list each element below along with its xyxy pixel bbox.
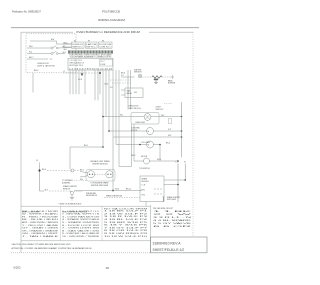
N supply lead bbox=[184, 164, 186, 181]
ground bbox=[70, 195, 74, 200]
junction cool fan right bbox=[159, 144, 161, 146]
wire W-6 stub bbox=[63, 46, 72, 48]
plug ticks bbox=[71, 169, 72, 172]
igniter ground stub bbox=[154, 79, 158, 81]
svg-text:L1 N: L1 N bbox=[142, 184, 146, 186]
wire drop to lower module bbox=[118, 70, 120, 167]
wire to cooling fan bbox=[116, 144, 147, 146]
svg-text:BK-12: BK-12 bbox=[126, 189, 131, 191]
dashed stub row a bbox=[110, 79, 131, 81]
L1 riser wire bbox=[39, 165, 41, 191]
wire gauge table rows bbox=[104, 211, 150, 238]
svg-text:5 - SPARK IGNITER: 5 - SPARK IGNITER bbox=[62, 221, 100, 224]
svg-text:6 6 OR: 6 6 OR bbox=[153, 226, 194, 228]
diagram title on top edge bbox=[73, 30, 149, 34]
TO-BE dashes bbox=[74, 191, 83, 193]
svg-text:7 18 GY 1/4-F P7: 7 18 GY 1/4-F P7 bbox=[104, 227, 149, 229]
disconnect plug bbox=[71, 169, 74, 172]
lamp X strokes bbox=[145, 115, 150, 120]
wire into module left 2 bbox=[121, 94, 125, 96]
oven burner box (dashed) bbox=[26, 34, 76, 73]
svg-text:M: M bbox=[148, 145, 150, 147]
svg-text:WIRING DIAGRAM: WIRING DIAGRAM bbox=[98, 18, 125, 22]
wire drop into lamp enclosure bbox=[127, 70, 129, 110]
polarity arrow bbox=[81, 74, 83, 77]
sensor X strokes bbox=[139, 75, 141, 77]
legend divider col2/table bbox=[101, 206, 103, 241]
junction surface feed bbox=[102, 146, 104, 148]
svg-text:GY - GRAY / GRIS: GY - GRAY / GRIS bbox=[22, 227, 59, 230]
wire into M3 bbox=[134, 160, 144, 162]
svg-text:OVEN LIGHT: OVEN LIGHT bbox=[135, 122, 145, 124]
svg-text:1 - LINE 1 SUPPLY / L1: 1 - LINE 1 SUPPLY / L1 bbox=[62, 211, 100, 213]
svg-text:V-9: V-9 bbox=[121, 75, 124, 77]
svg-text:OR-4: OR-4 bbox=[104, 84, 108, 86]
wire pin8 drop bbox=[97, 70, 99, 100]
svg-text:4 18 BL 1/4-F P4: 4 18 BL 1/4-F P4 bbox=[104, 219, 149, 221]
svg-text:COOL FAN: COOL FAN bbox=[141, 141, 150, 144]
svg-text:W-2: W-2 bbox=[63, 52, 66, 54]
wire surface feed drop bbox=[69, 147, 71, 169]
spark module box bbox=[140, 176, 164, 202]
svg-text:VALVE: VALVE bbox=[127, 92, 133, 95]
oven lamp bbox=[144, 114, 151, 121]
wire pin9 drop to lamp feed bbox=[102, 70, 104, 147]
wire pin12 drop bbox=[112, 70, 114, 191]
svg-text:SENSOR: SENSOR bbox=[134, 72, 142, 74]
svg-text:3 3 R L1 - N: 3 3 R L1 - N bbox=[153, 217, 193, 219]
connector table rows bbox=[153, 211, 195, 228]
wire door switch to EOC bbox=[58, 47, 71, 50]
relay module box bbox=[125, 88, 143, 98]
svg-text:Y - YELLOW / JAUNE: Y - YELLOW / JAUNE bbox=[22, 224, 59, 227]
wire pin4 drop bbox=[78, 70, 80, 94]
svg-text:PGLF389CCB: PGLF389CCB bbox=[102, 10, 120, 14]
wire to fan motor bbox=[109, 130, 147, 132]
svg-text:L1: L1 bbox=[63, 71, 65, 73]
cooling fan motor M2 bbox=[147, 141, 154, 148]
svg-text:BK-5: BK-5 bbox=[80, 169, 84, 171]
L1 supply lead bbox=[177, 164, 179, 203]
svg-text:R - RED / ROUGE: R - RED / ROUGE bbox=[22, 216, 59, 218]
svg-text:2 2 W: 2 2 W bbox=[153, 214, 191, 216]
legend column 1 rows bbox=[22, 210, 59, 238]
dashed wire to igniter coil bbox=[142, 76, 152, 78]
svg-text:P6: P6 bbox=[102, 40, 104, 42]
terminal strip P1 bbox=[68, 50, 113, 53]
svg-text:HV2: HV2 bbox=[142, 194, 145, 196]
junction lamp feed bbox=[102, 116, 104, 118]
igniter enclosure bbox=[86, 170, 115, 182]
L1 riser tick bbox=[39, 163, 41, 166]
wire module to N lead bbox=[164, 179, 185, 181]
junction module N bbox=[184, 179, 186, 181]
svg-text:DSI: DSI bbox=[134, 92, 137, 94]
wire BK-7 row bbox=[27, 58, 53, 60]
svg-text:TOD SWITCH: TOD SWITCH bbox=[139, 168, 150, 170]
legend column 2 rows bbox=[62, 211, 100, 238]
wire pin11 drop bbox=[108, 70, 110, 131]
svg-text:LIGHT SW (N.O.): LIGHT SW (N.O.) bbox=[128, 108, 142, 110]
svg-text:W-2: W-2 bbox=[161, 115, 164, 117]
svg-text:9 18 GN RING P9: 9 18 GN RING P9 bbox=[104, 233, 149, 235]
svg-text:4 - SPARK SWITCHES: 4 - SPARK SWITCHES bbox=[62, 218, 100, 221]
dashes between igniters bbox=[95, 173, 106, 175]
wire to spark module bbox=[74, 190, 142, 192]
junction M3 at lead bbox=[177, 160, 179, 162]
svg-text:M: M bbox=[148, 131, 150, 133]
svg-text:LIGHT & LATCH SW: LIGHT & LATCH SW bbox=[37, 65, 55, 68]
svg-text:BURNERS: BURNERS bbox=[62, 183, 71, 185]
svg-text:5 5 GY VALVE: 5 5 GY VALVE bbox=[153, 222, 193, 225]
svg-text:SHEET/FEUILLE:1/2: SHEET/FEUILLE:1/2 bbox=[153, 248, 185, 252]
wire lamp to bus bbox=[151, 116, 182, 118]
light switch contact bbox=[169, 119, 172, 124]
svg-text:5 18 BR 3/16 P5: 5 18 BR 3/16 P5 bbox=[104, 222, 149, 224]
svg-text:10 18 W 1/4-F P10: 10 18 W 1/4-F P10 bbox=[104, 236, 149, 238]
svg-text:10 - GROUND / TERRE: 10 - GROUND / TERRE bbox=[62, 236, 100, 238]
svg-text:W-4: W-4 bbox=[45, 190, 48, 192]
svg-text:1 1 BK: 1 1 BK bbox=[153, 211, 195, 213]
svg-text:T - TAN / SABLE: T - TAN / SABLE bbox=[22, 235, 59, 238]
svg-text:N: N bbox=[184, 161, 186, 163]
svg-text:W - WHITE / BLANC: W - WHITE / BLANC bbox=[22, 213, 59, 216]
junction L1 drop bbox=[99, 72, 101, 74]
svg-text:1 2 3 4 5 6 7 8 9 10 11 12 13: 1 2 3 4 5 6 7 8 9 10 11 12 13 14 bbox=[69, 68, 112, 70]
svg-text:W-14: W-14 bbox=[115, 189, 119, 191]
svg-text:3 - CONV FAN MOTOR: 3 - CONV FAN MOTOR bbox=[62, 215, 100, 218]
svg-text:* USED ON SOME MODELS: * USED ON SOME MODELS bbox=[58, 204, 82, 206]
svg-text:1 18 BK 1/4-F P1: 1 18 BK 1/4-F P1 bbox=[104, 211, 149, 213]
svg-text:MODULE: MODULE bbox=[142, 181, 150, 183]
wire lamp feed bbox=[103, 116, 144, 118]
svg-text:CAUTION: DISCONNECT POWER BEFO: CAUTION: DISCONNECT POWER BEFORE SERVICI… bbox=[12, 243, 72, 246]
ground wire bbox=[70, 190, 72, 193]
svg-text:HV1: HV1 bbox=[142, 189, 145, 191]
wire pin5 drop bbox=[81, 70, 83, 73]
junction on riser bbox=[38, 169, 40, 171]
convection fan motor M1 bbox=[147, 128, 154, 135]
svg-text:SW N.O.: SW N.O. bbox=[72, 46, 84, 48]
wire pin2 drop bbox=[72, 70, 74, 94]
spark module terminals bbox=[155, 188, 161, 195]
svg-text:6 - DOOR LOCK SW: 6 - DOOR LOCK SW bbox=[62, 225, 99, 227]
riser elbow to spark row bbox=[40, 190, 45, 192]
svg-text:SWITCH: SWITCH bbox=[63, 188, 71, 190]
svg-text:BR - BROWN / BRUN: BR - BROWN / BRUN bbox=[22, 222, 59, 224]
legend box top edge bbox=[21, 205, 151, 207]
junction module L1 bbox=[177, 184, 179, 186]
wire from burner box down bbox=[32, 73, 34, 93]
svg-text:BK-1: BK-1 bbox=[84, 145, 88, 147]
igniter stub wires bbox=[80, 172, 88, 178]
wire surface feed left bbox=[70, 146, 103, 148]
bake burner flame symbol bbox=[172, 76, 174, 79]
wire module down bbox=[145, 202, 147, 207]
wire latch switch out bbox=[58, 53, 65, 55]
dashed wire after coil bbox=[162, 76, 172, 78]
wire B-6 bbox=[30, 41, 72, 44]
schematic frame bottom edge (dotted) bbox=[11, 252, 207, 254]
svg-text:BK - BLACK / NOIR: BK - BLACK / NOIR bbox=[22, 210, 59, 213]
svg-text:2 18 W 1/4-F P2: 2 18 W 1/4-F P2 bbox=[104, 213, 149, 215]
wire pin13 drop bbox=[115, 70, 117, 145]
svg-text:ATTENTION: COUPER L'ALIMENTATI: ATTENTION: COUPER L'ALIMENTATION AVANT L… bbox=[12, 247, 93, 250]
schematic frame left edge bbox=[20, 32, 22, 253]
oven temperature sensor RTD bbox=[138, 74, 142, 78]
connector block J4 bbox=[99, 42, 113, 48]
svg-text:A-1: A-1 bbox=[63, 45, 66, 48]
svg-text:MOTOR: MOTOR bbox=[141, 156, 148, 158]
connector block J3 bbox=[86, 42, 98, 48]
EOC control board U1 bbox=[68, 58, 113, 70]
wire left stub at TOD bbox=[119, 166, 132, 168]
svg-text:W-13: W-13 bbox=[157, 159, 161, 161]
wire pin3 drop bbox=[75, 70, 77, 94]
svg-text:318064910 REV:A: 318064910 REV:A bbox=[153, 241, 182, 245]
junction mid row bbox=[181, 136, 183, 138]
wire pin10 drop bbox=[105, 70, 107, 117]
svg-text:SWITCHES: SWITCHES bbox=[167, 199, 177, 201]
wire pin7 drop bbox=[94, 70, 96, 100]
svg-text:SPARK IGNITER SW: SPARK IGNITER SW bbox=[106, 195, 123, 198]
svg-text:W-1: W-1 bbox=[120, 115, 123, 117]
surface burner dashes bbox=[74, 180, 86, 182]
wire to door switch row bbox=[27, 47, 51, 49]
wire W-5 stub bbox=[80, 176, 88, 177]
svg-text:BURNER: BURNER bbox=[168, 83, 176, 85]
svg-text:3 18 R 1/4-F P3: 3 18 R 1/4-F P3 bbox=[104, 216, 150, 218]
svg-text:OR - ORANGE / ORANGE: OR - ORANGE / ORANGE bbox=[22, 229, 59, 232]
svg-text:L1: L1 bbox=[36, 160, 39, 162]
svg-text:6 18 Y 3/16 P6: 6 18 Y 3/16 P6 bbox=[104, 225, 150, 227]
svg-text:8 - GAS VALVE / DSI: 8 - GAS VALVE / DSI bbox=[62, 229, 100, 232]
door switch S1 bbox=[51, 47, 53, 49]
schematic frame top edge bbox=[21, 31, 193, 33]
svg-text:GN - GREEN / VERT: GN - GREEN / VERT bbox=[22, 233, 59, 235]
svg-text:8 18 OR 1/4-F P8: 8 18 OR 1/4-F P8 bbox=[104, 230, 149, 232]
wire BK-6 stub bbox=[63, 43, 72, 45]
svg-text:COM N.O.: COM N.O. bbox=[99, 46, 112, 48]
dashed stub row b bbox=[112, 82, 131, 84]
svg-text:BK-6: BK-6 bbox=[64, 42, 68, 44]
top burner igniter T2 bbox=[106, 171, 113, 178]
wire fan to bus bbox=[154, 130, 182, 132]
legend box bottom edge bbox=[21, 240, 151, 242]
EOC relay sub-box bbox=[100, 60, 113, 67]
wire enclosure drop b bbox=[133, 124, 135, 161]
junction fan at bus bbox=[181, 130, 183, 132]
strip pin gaps bbox=[70, 50, 72, 53]
svg-text:BK-4: BK-4 bbox=[42, 169, 46, 171]
junction spark feed bbox=[112, 190, 114, 192]
latch switch S2 bbox=[51, 52, 53, 54]
junction at N bus bbox=[181, 116, 183, 118]
wire mid row bbox=[113, 136, 182, 138]
chassis terminal bbox=[70, 191, 73, 194]
sensor feed wire bbox=[121, 76, 135, 78]
wires into relay module bbox=[121, 90, 125, 95]
svg-text:W-3: W-3 bbox=[168, 135, 171, 137]
header rule bbox=[11, 27, 199, 29]
junction cool fan left bbox=[139, 144, 141, 146]
svg-text:BK W R GY OR V: BK W R GY OR V bbox=[70, 65, 84, 67]
svg-text:IGNITER MODULE: IGNITER MODULE bbox=[92, 164, 108, 166]
wire BK-5 stub bbox=[80, 172, 88, 173]
bake igniter coil bbox=[152, 76, 162, 78]
svg-text:2 - NEUTRAL SUPPLY / N: 2 - NEUTRAL SUPPLY / N bbox=[62, 213, 100, 216]
TOD switch motor M3 bbox=[144, 158, 150, 164]
svg-text:N DLB: N DLB bbox=[100, 64, 106, 66]
light switch dashed stub bbox=[164, 103, 172, 105]
svg-text:R-2: R-2 bbox=[168, 129, 171, 131]
svg-text:BL - BLUE / BLEU: BL - BLUE / BLEU bbox=[22, 219, 59, 221]
oven lamp enclosure bbox=[131, 113, 159, 125]
svg-text:BK-9: BK-9 bbox=[132, 155, 136, 157]
svg-text:P5: P5 bbox=[88, 40, 90, 42]
svg-text:SWITCH *: SWITCH * bbox=[156, 109, 165, 111]
svg-text:6/202: 6/202 bbox=[14, 266, 21, 270]
svg-text:4 4 BL SPARK: 4 4 BL SPARK bbox=[153, 219, 193, 222]
dashed wire from riser to igniter module bbox=[47, 170, 71, 172]
title block box bbox=[151, 237, 208, 253]
dashed spark sense wire bbox=[104, 197, 140, 199]
svg-text:W-9: W-9 bbox=[64, 49, 67, 51]
wire pin6 drop bbox=[84, 70, 86, 94]
wire into module left bbox=[121, 89, 125, 91]
schematic frame right edge (dashed) bbox=[192, 32, 194, 237]
svg-text:PIN CAV WIRE CIRCUIT: PIN CAV WIRE CIRCUIT bbox=[153, 207, 174, 210]
N bus bbox=[181, 102, 183, 158]
svg-text:GY-8: GY-8 bbox=[78, 79, 82, 81]
svg-text:BK-2: BK-2 bbox=[34, 70, 39, 72]
dashed wire plug to igniters bbox=[74, 170, 80, 172]
wire M3 to L1 lead bbox=[150, 160, 179, 162]
legend divider col1/col2 bbox=[60, 206, 62, 241]
connector block J2 bbox=[72, 42, 85, 48]
wire cooling fan elbow bbox=[154, 145, 161, 162]
wire to latch switch row bbox=[27, 53, 51, 55]
svg-text:V-2: V-2 bbox=[110, 87, 113, 89]
wire drop into lamp enclosure 2 bbox=[130, 70, 132, 110]
wire enclosure drop a bbox=[131, 124, 133, 167]
dashed wire spark row bbox=[49, 190, 70, 192]
svg-text:7 - OVEN LIGHT SW: 7 - OVEN LIGHT SW bbox=[62, 228, 99, 230]
svg-text:BK-3: BK-3 bbox=[166, 143, 170, 145]
wire pin1 drop bbox=[69, 70, 71, 94]
svg-text:9 - IGNITER / ALLUMEUR: 9 - IGNITER / ALLUMEUR bbox=[62, 232, 100, 235]
svg-text:REGULATOR: REGULATOR bbox=[86, 194, 98, 197]
svg-text:IGNITER SWITCHES: IGNITER SWITCHES bbox=[91, 185, 109, 187]
wire stubs to EOC bbox=[63, 44, 72, 47]
legend divider bbox=[150, 205, 152, 253]
wire pin drop L1 bbox=[99, 70, 101, 94]
svg-text:OVEN BURNER L1 REFERENCE AND D: OVEN BURNER L1 REFERENCE AND DRUM bbox=[76, 30, 140, 34]
top burner igniter T1 bbox=[87, 171, 94, 178]
svg-text:P4: P4 bbox=[74, 40, 76, 42]
svg-text:SW N.C.: SW N.C. bbox=[86, 46, 97, 48]
junction fan feed bbox=[108, 130, 110, 132]
svg-text:Publication No. 5995539157: Publication No. 5995539157 bbox=[12, 11, 42, 14]
svg-text:SPARK: SPARK bbox=[142, 178, 148, 181]
svg-text:18: 18 bbox=[106, 266, 110, 270]
wire module to L1 lead bbox=[164, 184, 178, 186]
wire L1 into EOC bbox=[63, 72, 100, 74]
svg-text:GAS: GAS bbox=[127, 89, 131, 92]
